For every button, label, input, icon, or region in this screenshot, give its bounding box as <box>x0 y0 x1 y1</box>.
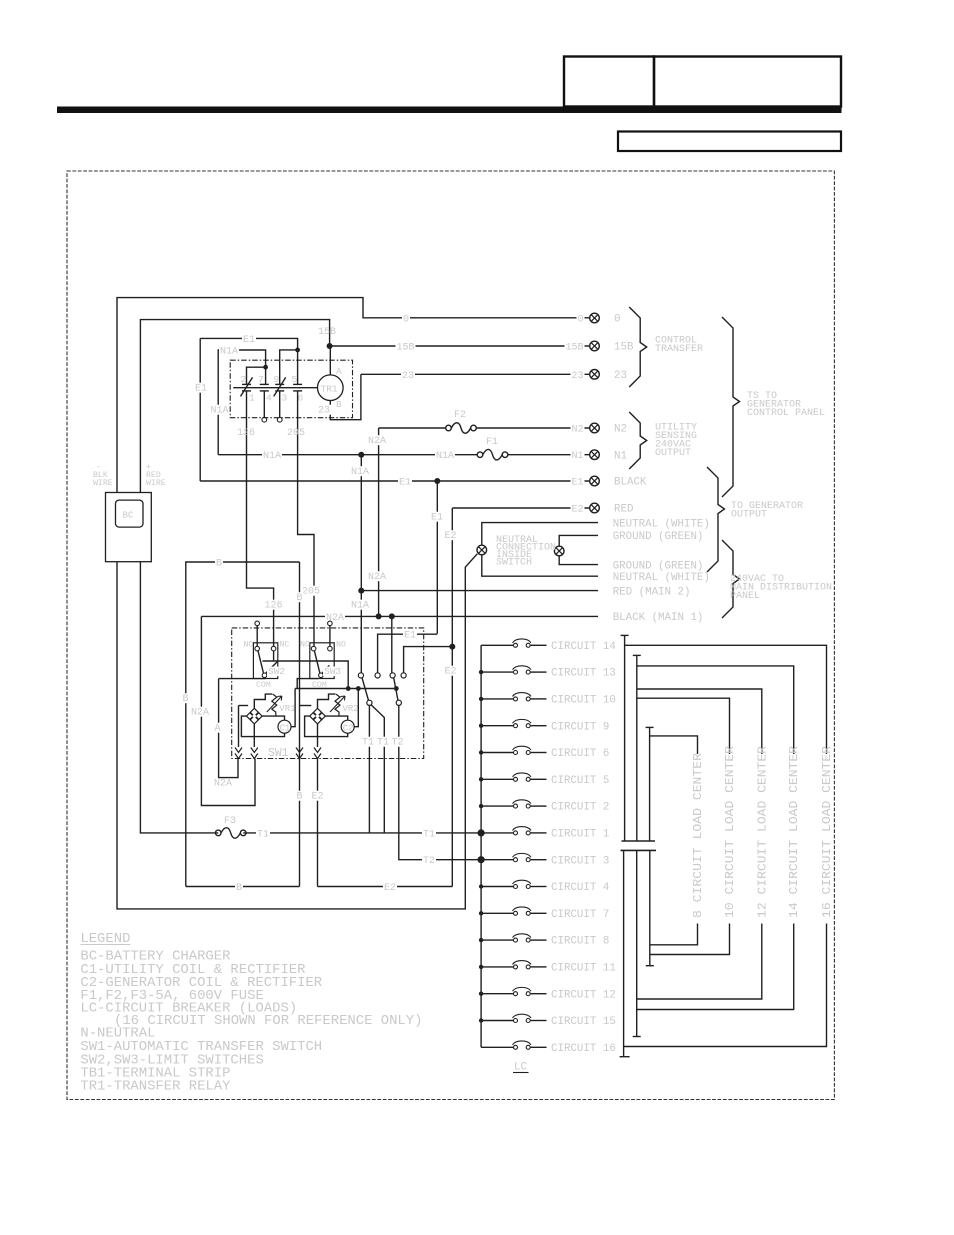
svg-text:NO: NO <box>300 641 310 650</box>
wire E1 top: to TR1 contacts 9,5 <box>200 338 297 384</box>
svg-text:CIRCUIT 5: CIRCUIT 5 <box>551 775 609 787</box>
return hook 12-circuit <box>637 924 762 1000</box>
svg-text:23: 23 <box>402 371 414 382</box>
circuit breaker CIRCUIT 14 <box>481 639 546 647</box>
svg-text:N1A: N1A <box>220 347 238 358</box>
svg-text:15B: 15B <box>614 342 634 354</box>
svg-text:0: 0 <box>614 314 620 326</box>
svg-text:NC: NC <box>280 641 290 650</box>
wire B through SW1 <box>299 562 301 887</box>
svg-text:CIRCUIT 3: CIRCUIT 3 <box>551 855 609 867</box>
svg-text:CIRCUIT 9: CIRCUIT 9 <box>551 721 609 733</box>
junction E1 pins <box>295 348 300 353</box>
junction 15B <box>327 343 333 349</box>
svg-text:F2: F2 <box>454 410 466 421</box>
svg-text:F1: F1 <box>486 437 498 448</box>
limit switch SW3 <box>310 643 334 679</box>
wire B from SW1 label <box>296 791 304 801</box>
neutral terminal lug 1 <box>477 545 487 555</box>
svg-text:4: 4 <box>266 393 272 404</box>
svg-text:A: A <box>215 724 221 735</box>
transfer relay TR1 enclosure <box>230 360 352 418</box>
wire E1 to contact <box>378 634 438 673</box>
wire black main1 / N2A run <box>201 615 598 617</box>
svg-text:0: 0 <box>403 315 409 326</box>
svg-text:N2A: N2A <box>368 572 386 583</box>
wire E2 riser <box>451 508 453 887</box>
svg-text:15B: 15B <box>565 343 583 354</box>
circuit breaker CIRCUIT 7 <box>481 907 546 915</box>
svg-text:E1: E1 <box>243 335 255 346</box>
drawing frame <box>67 171 834 1100</box>
junction E2 <box>449 644 455 650</box>
fuse F3 <box>215 828 246 839</box>
SW3 NO right stub <box>329 625 331 646</box>
wire 15B : BC+ up and over to dot <box>140 320 329 493</box>
svg-text:SW2: SW2 <box>268 666 285 677</box>
wire E1 row <box>200 480 589 482</box>
circuit breaker CIRCUIT 1 <box>481 827 546 835</box>
wire RED/F3 feed : BC+ down to fuse F3 <box>140 562 218 833</box>
brace TS to generator control panel <box>722 317 740 497</box>
svg-text:GROUND (GREEN): GROUND (GREEN) <box>613 560 704 572</box>
svg-text:N2: N2 <box>614 424 627 436</box>
title block cell right <box>654 57 841 107</box>
SW2 NO terminal stub <box>256 625 258 646</box>
svg-text:B: B <box>297 593 303 604</box>
wire E2 bottom run <box>318 886 453 888</box>
svg-text:23: 23 <box>614 370 627 382</box>
wire 205 : TR1 pin6 to SW3 NO <box>298 391 314 646</box>
svg-text:205: 205 <box>302 587 320 598</box>
wire 15B : dot to terminal <box>330 345 589 347</box>
wire red main2 <box>361 590 598 592</box>
svg-text:SWITCH: SWITCH <box>496 558 532 569</box>
svg-text:N1A: N1A <box>351 601 369 612</box>
limit switch SW2 <box>253 643 277 679</box>
junction red main2 <box>358 588 364 594</box>
svg-text:CIRCUIT 1: CIRCUIT 1 <box>551 829 609 841</box>
svg-text:23: 23 <box>571 371 583 382</box>
svg-text:0: 0 <box>577 315 583 326</box>
svg-text:14 CIRCUIT LOAD CENTER: 14 CIRCUIT LOAD CENTER <box>788 746 801 918</box>
TR1 pin3 stub <box>279 391 281 417</box>
neutral terminal lug 2 <box>554 546 564 556</box>
SW1 exit arrows <box>235 748 242 753</box>
wire N1A row with fuse F1 <box>218 454 477 456</box>
svg-text:E1: E1 <box>431 513 443 524</box>
svg-text:3: 3 <box>282 393 288 404</box>
wire N2A to contact <box>391 616 393 672</box>
svg-text:9: 9 <box>274 374 280 385</box>
svg-text:NO: NO <box>336 641 346 650</box>
brace utility sensing <box>629 412 647 469</box>
brace to generator output <box>707 467 725 572</box>
wire 23 to terminal <box>361 373 589 375</box>
load-centre feeder bus <box>480 645 482 1047</box>
svg-text:LC: LC <box>514 1062 527 1074</box>
junction N2A taps <box>376 613 382 619</box>
wire E1 left riser <box>199 338 201 481</box>
terminal 0 <box>590 313 600 323</box>
svg-text:SW3: SW3 <box>324 666 341 677</box>
brace 240vac to main distribution panel <box>722 540 740 618</box>
TR1 pin4 stub <box>263 391 265 417</box>
svg-text:5: 5 <box>292 374 298 385</box>
svg-text:E2: E2 <box>445 531 457 542</box>
T1 lever 1 <box>362 678 369 701</box>
wire T2 down <box>399 705 481 859</box>
svg-text:CIRCUIT 6: CIRCUIT 6 <box>551 748 609 760</box>
svg-text:2: 2 <box>241 374 247 385</box>
bus L2 lower <box>636 850 638 1036</box>
TR1 contact 7-4 <box>260 383 269 385</box>
svg-text:N1A: N1A <box>436 451 454 462</box>
SW3 COM wire down to coil line <box>297 679 318 689</box>
bus L3 lower <box>649 850 651 965</box>
circuit breaker CIRCUIT 4 <box>481 880 546 888</box>
svg-text:7: 7 <box>258 374 264 385</box>
TR1 pin B wire / 23 run <box>330 374 361 419</box>
svg-text:T1: T1 <box>423 829 435 840</box>
circuit breaker CIRCUIT 16 <box>481 1041 546 1049</box>
svg-text:N2: N2 <box>571 425 583 436</box>
svg-text:CIRCUIT 13: CIRCUIT 13 <box>551 668 616 680</box>
rectifier bridge C1 cell <box>239 694 285 747</box>
svg-text:VR2: VR2 <box>343 704 359 714</box>
circuit breaker CIRCUIT 6 <box>481 746 546 754</box>
return hook 16-circuit <box>624 924 827 1047</box>
circuit breaker CIRCUIT 9 <box>481 719 546 727</box>
coil C1 <box>278 720 291 733</box>
svg-text:BC: BC <box>123 511 134 521</box>
svg-text:T2: T2 <box>423 856 435 867</box>
coil C2 output riser <box>354 689 358 727</box>
title block cell left <box>564 57 654 107</box>
svg-text:TR1: TR1 <box>321 384 338 395</box>
svg-text:TRANSFER: TRANSFER <box>655 344 703 355</box>
svg-text:16 CIRCUIT LOAD CENTER: 16 CIRCUIT LOAD CENTER <box>821 746 834 918</box>
svg-text:N2A: N2A <box>191 708 209 719</box>
wire E2 row <box>452 507 589 509</box>
T contact stationary terminals <box>358 673 363 678</box>
svg-text:T1: T1 <box>257 829 269 840</box>
svg-text:1: 1 <box>249 393 255 404</box>
svg-text:B: B <box>216 559 222 570</box>
svg-text:OUTPUT: OUTPUT <box>731 510 767 521</box>
subtitle box <box>618 132 841 152</box>
wire E1 branch riser <box>436 481 438 634</box>
svg-text:GROUND (GREEN): GROUND (GREEN) <box>613 531 704 543</box>
return hook 8-circuit <box>650 924 698 945</box>
svg-text:N1A: N1A <box>351 467 369 478</box>
svg-text:E1: E1 <box>571 478 583 489</box>
circuit breaker CIRCUIT 5 <box>481 773 546 781</box>
svg-text:CIRCUIT 12: CIRCUIT 12 <box>551 989 616 1001</box>
terminal E1 <box>590 476 600 486</box>
bus break bars <box>622 840 656 842</box>
fuse F2 <box>446 423 477 434</box>
terminal N2 <box>590 423 600 433</box>
circuit breaker CIRCUIT 2 <box>481 800 546 808</box>
wire B left loop <box>186 562 300 887</box>
svg-text:WIRE: WIRE <box>93 479 113 488</box>
circuit breaker CIRCUIT 11 <box>481 961 546 969</box>
wire A loop : SW2 COM <box>219 679 238 778</box>
svg-text:15B: 15B <box>318 327 336 338</box>
svg-text:B: B <box>336 399 342 410</box>
svg-text:NEUTRAL (WHITE): NEUTRAL (WHITE) <box>613 518 710 530</box>
TR1 contact 9-3 <box>275 383 284 385</box>
bus L2 upper <box>636 655 638 841</box>
svg-text:23: 23 <box>318 406 330 417</box>
wire B bottom run <box>186 886 300 888</box>
svg-text:NO: NO <box>244 641 254 650</box>
SW1 enclosure <box>232 628 424 759</box>
svg-text:CIRCUIT 10: CIRCUIT 10 <box>551 695 616 707</box>
svg-text:126: 126 <box>237 428 255 439</box>
svg-text:N2A: N2A <box>368 436 386 447</box>
svg-text:PANEL: PANEL <box>730 591 760 602</box>
coil interconnect line <box>295 688 396 690</box>
svg-text:F3: F3 <box>224 816 236 827</box>
svg-text:CIRCUIT 2: CIRCUIT 2 <box>551 802 609 814</box>
svg-text:C1: C1 <box>280 724 291 734</box>
circuit breaker CIRCUIT 15 <box>481 1014 546 1022</box>
svg-text:B: B <box>297 792 303 803</box>
svg-text:NEUTRAL (WHITE): NEUTRAL (WHITE) <box>613 572 710 584</box>
wire N1A top: to TR1 contacts 2,7 <box>218 350 265 455</box>
rectifier bridge C2 cell <box>300 694 348 747</box>
svg-text:T1: T1 <box>377 738 389 749</box>
svg-text:(16 CIRCUIT SHOWN FOR REFERENC: (16 CIRCUIT SHOWN FOR REFERENCE ONLY) <box>114 1013 422 1029</box>
svg-text:T1: T1 <box>362 738 374 749</box>
wire 0 : BC- up and over to terminal 0 <box>117 298 589 493</box>
hook to 10-circuit column <box>637 698 730 754</box>
circuit breaker CIRCUIT 8 <box>481 934 546 942</box>
svg-text:TR1-TRANSFER RELAY: TR1-TRANSFER RELAY <box>80 1079 231 1095</box>
return hook 14-circuit <box>637 924 794 1010</box>
bus L3 upper <box>649 727 651 841</box>
svg-text:CIRCUIT 11: CIRCUIT 11 <box>551 963 616 975</box>
svg-text:B: B <box>183 694 189 705</box>
svg-text:CIRCUIT 16: CIRCUIT 16 <box>551 1043 616 1055</box>
T2 lever <box>394 678 398 701</box>
svg-text:B: B <box>236 883 242 894</box>
svg-text:N2A: N2A <box>326 613 344 624</box>
circuit breaker CIRCUIT 10 <box>481 693 546 701</box>
svg-text:SW1: SW1 <box>268 747 289 760</box>
TR1 contact 5-6 <box>293 383 302 385</box>
wire N2A left riser <box>201 616 255 805</box>
header rule bar <box>57 107 842 114</box>
bus L1 lower <box>623 850 625 1056</box>
svg-text:CIRCUIT 8: CIRCUIT 8 <box>551 936 609 948</box>
brace control transfer <box>629 307 647 387</box>
svg-text:WIRE: WIRE <box>146 479 166 488</box>
svg-text:RED: RED <box>614 504 633 516</box>
svg-text:CIRCUIT 14: CIRCUIT 14 <box>551 641 616 653</box>
svg-text:E1: E1 <box>404 631 416 642</box>
svg-text:10 CIRCUIT LOAD CENTER: 10 CIRCUIT LOAD CENTER <box>724 746 737 918</box>
circuit breaker CIRCUIT 3 <box>481 853 546 861</box>
svg-text:CIRCUIT 4: CIRCUIT 4 <box>551 882 609 894</box>
svg-text:E2: E2 <box>445 667 457 678</box>
svg-text:T2: T2 <box>392 738 404 749</box>
wire 126 : TR1 pin1 to SW2 NC <box>247 391 274 646</box>
svg-text:15B: 15B <box>397 343 415 354</box>
wire T1 : F3 to load-centre bus <box>243 832 481 834</box>
terminal E2 <box>590 503 600 513</box>
T1 lever 2 tie <box>371 705 384 833</box>
wire N/BLK : BC- down, along bottom, up to neutral <box>117 554 477 909</box>
svg-text:N1A: N1A <box>263 451 281 462</box>
svg-text:VR1: VR1 <box>279 704 295 714</box>
labels on T1 run <box>256 829 270 839</box>
TR1 contact 2-1 <box>242 383 251 385</box>
hook to 14-circuit column <box>637 666 794 754</box>
coil C1 output riser <box>291 689 295 727</box>
fuse F1 <box>477 449 508 460</box>
svg-text:N1: N1 <box>571 451 583 462</box>
SW2 blade tap line to coil circuit <box>263 661 349 689</box>
circuit breaker CIRCUIT 13 <box>481 666 546 674</box>
svg-text:CIRCUIT 15: CIRCUIT 15 <box>551 1016 616 1028</box>
wire N1A branch riser to SW1 <box>360 455 362 673</box>
wire E2 to contact <box>404 647 453 673</box>
svg-text:12 CIRCUIT LOAD CENTER: 12 CIRCUIT LOAD CENTER <box>756 746 769 918</box>
wire T1a down <box>368 705 370 833</box>
svg-text:6: 6 <box>298 393 304 404</box>
TR1 armature line <box>233 387 317 389</box>
junction N1A pins <box>263 365 268 370</box>
SW2 COM wire <box>219 678 266 680</box>
wire N2/N2A with fuse F2 <box>379 427 446 429</box>
terminal 23 <box>590 370 600 380</box>
hook to 8-circuit column <box>650 736 698 754</box>
svg-text:COM: COM <box>256 681 271 690</box>
svg-text:E2: E2 <box>384 883 396 894</box>
bus L1 upper <box>624 635 626 841</box>
svg-text:RED (MAIN 2): RED (MAIN 2) <box>613 586 691 598</box>
terminal N1 <box>590 450 600 460</box>
TR1 pin A wire <box>329 346 331 375</box>
TR1 coil circle <box>318 375 344 401</box>
hook row14 to 16-circuit column <box>625 645 827 754</box>
terminal 15B <box>590 341 600 351</box>
svg-text:CIRCUIT 7: CIRCUIT 7 <box>551 909 609 921</box>
svg-text:E2: E2 <box>312 792 324 803</box>
junction N1A branch <box>358 452 364 458</box>
svg-text:E1: E1 <box>399 478 411 489</box>
svg-text:C2: C2 <box>343 724 354 734</box>
svg-text:205: 205 <box>287 428 305 439</box>
battery charger BC <box>106 493 152 562</box>
wire E2 from SW1 <box>317 759 319 887</box>
svg-text:N1: N1 <box>614 450 627 462</box>
svg-text:E1: E1 <box>195 384 207 395</box>
coil C2 <box>341 720 354 733</box>
svg-text:BLACK (MAIN 1): BLACK (MAIN 1) <box>613 612 704 624</box>
svg-text:N2A: N2A <box>214 779 232 790</box>
svg-text:CONTROL PANEL: CONTROL PANEL <box>747 408 825 419</box>
wire neutral white upper <box>482 523 598 577</box>
wire N2A riser <box>378 428 380 616</box>
svg-text:N1A: N1A <box>211 406 229 417</box>
wire ground green upper <box>559 535 598 564</box>
svg-text:8 CIRCUIT LOAD CENTER: 8 CIRCUIT LOAD CENTER <box>692 753 705 918</box>
svg-text:E2: E2 <box>571 505 583 516</box>
svg-text:OUTPUT: OUTPUT <box>655 448 691 459</box>
svg-text:126: 126 <box>265 601 283 612</box>
svg-text:A: A <box>336 366 342 377</box>
svg-text:BLACK: BLACK <box>614 477 647 489</box>
hook to 12-circuit column <box>637 689 762 754</box>
return hook 10-circuit <box>650 924 730 955</box>
junction E1 branch <box>434 478 440 484</box>
circuit breaker CIRCUIT 12 <box>481 987 546 995</box>
